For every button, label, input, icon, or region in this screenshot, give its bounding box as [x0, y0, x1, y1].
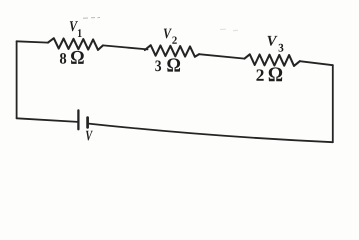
- wire : right vertical side: [332, 65, 334, 142]
- resistor R2 (V2, 3 ohm) zigzag: [145, 45, 199, 57]
- value label ohm symbol (3 ohm): [167, 58, 180, 71]
- value label 8 (of 8 ohm): [60, 53, 66, 64]
- label V2 : letter V: [164, 29, 172, 39]
- label V3 : subscript 3: [279, 44, 284, 52]
- wire : left vertical side: [16, 41, 18, 118]
- value label ohm symbol (2 ohm): [269, 67, 283, 81]
- resistor R1 (V1, 8 ohm) zigzag: [48, 38, 103, 50]
- value label ohm symbol (8 ohm): [71, 51, 84, 64]
- wire : top-left corner to R1: [17, 41, 48, 42]
- wire : R3 to top-right corner: [300, 61, 333, 65]
- wire : R1 to R2: [103, 45, 148, 49]
- label V : battery emf: [86, 131, 93, 141]
- value label 3 (of 3 ohm): [155, 60, 161, 71]
- label V3 : letter V: [267, 36, 277, 46]
- label V1 : subscript 1: [78, 29, 82, 37]
- wire : bottom run from right corner to battery short plate: [89, 124, 333, 143]
- resistor R3 (V3, 2 ohm) zigzag: [245, 54, 300, 66]
- label V1 : letter V: [70, 21, 78, 31]
- stray faint scan smudges right of V2: [220, 29, 238, 30]
- stray faint scan marks above V1: [83, 17, 100, 20]
- battery V : long plate: [77, 110, 79, 129]
- wire : bottom run from battery long plate to left corner: [17, 118, 78, 122]
- label V2 : subscript 2: [172, 36, 176, 43]
- wire : R2 to R3: [199, 54, 245, 58]
- value label 2 (of 2 ohm): [256, 69, 263, 80]
- battery V : short plate: [86, 118, 89, 128]
